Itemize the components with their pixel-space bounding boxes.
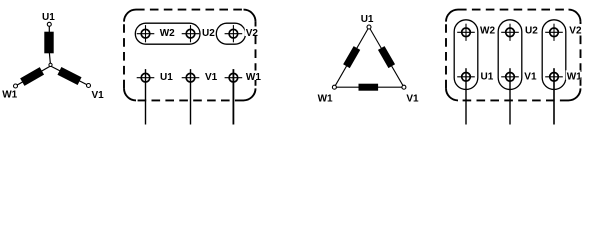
- svg-text:W2: W2: [480, 25, 495, 36]
- wire delta left side: [334, 27, 369, 87]
- winding W-V (delta bottom): [359, 84, 379, 91]
- winding U-V (delta right): [378, 46, 395, 68]
- svg-text:U2: U2: [202, 28, 215, 39]
- terminal W1 (box 1): [225, 69, 243, 124]
- terminal W1 (star): [14, 84, 18, 88]
- terminal V1 (box 2): [501, 68, 519, 124]
- link bar U2-V1 (box 2): [498, 20, 522, 90]
- svg-text:U1: U1: [42, 12, 55, 23]
- svg-text:W1: W1: [246, 72, 261, 83]
- svg-text:V1: V1: [524, 72, 537, 83]
- link bar V2 (box 1): [216, 23, 245, 44]
- svg-text:V2: V2: [246, 28, 259, 39]
- svg-text:U2: U2: [525, 25, 538, 36]
- terminal W1 (delta): [332, 85, 336, 89]
- wire star right branch: [51, 66, 89, 86]
- svg-text:V1: V1: [205, 72, 218, 83]
- winding W (star left): [20, 67, 44, 86]
- terminal V1 (box 1): [182, 69, 200, 124]
- svg-text:W1: W1: [567, 72, 582, 83]
- terminal W2 (box 2): [457, 24, 475, 41]
- terminal W1 (box 2): [545, 68, 563, 124]
- winding U (star top): [44, 32, 53, 54]
- terminal U1 (box 2): [457, 68, 475, 124]
- svg-text:U1: U1: [160, 72, 173, 83]
- wire delta right side: [369, 27, 404, 87]
- terminal V1 (delta): [402, 85, 406, 89]
- svg-text:W1: W1: [318, 93, 333, 104]
- svg-text:U1: U1: [361, 14, 374, 25]
- terminal U2 (box 1): [182, 25, 200, 42]
- svg-text:U1: U1: [481, 72, 494, 83]
- terminal V2 (box 2): [545, 24, 563, 41]
- terminal W2 (box 1): [137, 25, 155, 42]
- wire star top branch: [49, 26, 50, 65]
- link bar W2-U1 (box 2): [454, 20, 478, 90]
- wire star left branch: [16, 66, 51, 86]
- svg-text:W2: W2: [160, 28, 175, 39]
- winding U-W (delta left): [343, 46, 360, 68]
- label W1 (box 2): [566, 70, 582, 82]
- terminal V1 (star): [87, 84, 91, 88]
- label V2 (box 2): [568, 24, 582, 36]
- wire delta bottom side: [334, 86, 404, 88]
- terminal U2 (box 2): [501, 24, 519, 41]
- svg-text:V1: V1: [92, 90, 105, 101]
- terminal box 2 (delta) outline: [446, 10, 581, 101]
- label V2 (box 1): [245, 27, 259, 39]
- winding V (star right): [57, 67, 81, 85]
- link bar W2-U2 (box 1): [135, 23, 200, 44]
- label W1 (box 1): [245, 71, 261, 83]
- delta connection symbol: [318, 14, 419, 104]
- terminal box 1 (star) outline: [124, 10, 256, 101]
- terminal U1 (star): [47, 22, 51, 26]
- terminal U1 (delta): [367, 25, 371, 29]
- star point node: [49, 63, 52, 66]
- svg-text:W1: W1: [2, 90, 17, 101]
- terminal V2 (box 1): [225, 25, 243, 42]
- terminal U1 (box 1): [137, 69, 155, 124]
- link bar V2-W1 (box 2): [542, 20, 566, 90]
- star connection symbol: [2, 12, 104, 101]
- svg-text:V1: V1: [406, 93, 419, 104]
- svg-text:V2: V2: [569, 25, 582, 36]
